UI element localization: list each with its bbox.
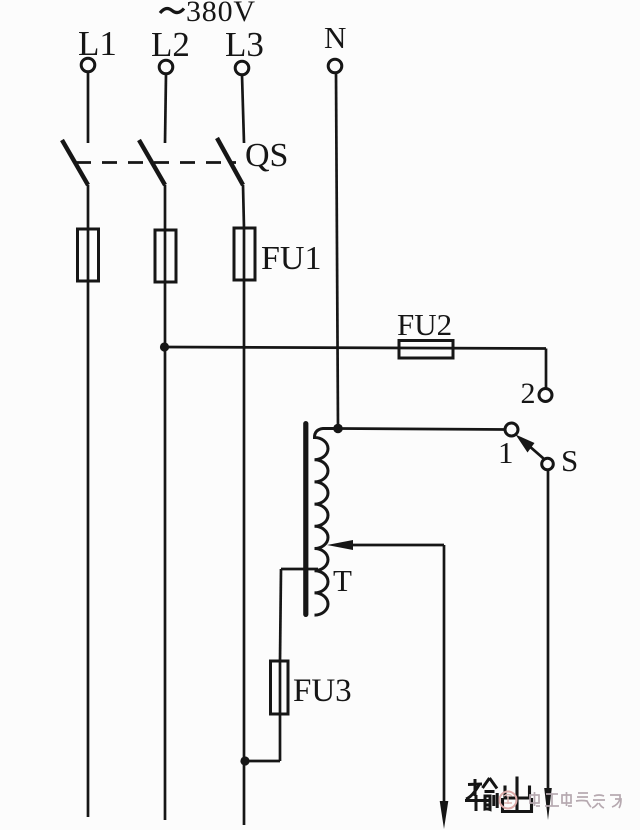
switch S blade xyxy=(520,438,544,459)
watermark logo inner xyxy=(504,795,512,805)
wire S down xyxy=(547,470,550,792)
wire in fuse1 xyxy=(87,229,90,281)
terminal L3 xyxy=(235,61,249,75)
fuse FU1 pole2 xyxy=(155,230,176,282)
wire L3 middle xyxy=(243,185,244,228)
wiper arrow line xyxy=(350,544,444,547)
wire L2 upper xyxy=(165,74,166,143)
label L3 xyxy=(225,25,264,64)
contact 2 circle xyxy=(539,389,552,402)
svg-text:380V: 380V xyxy=(186,0,256,28)
wiper arrowhead xyxy=(327,540,353,550)
label 2 xyxy=(521,377,536,410)
label ~380V xyxy=(186,0,256,28)
tilde of ~380V xyxy=(160,9,184,14)
QS linkage dashed line xyxy=(76,161,236,164)
fuse FU3 xyxy=(271,661,289,714)
svg-text:N: N xyxy=(324,20,346,55)
label FU1 xyxy=(261,240,321,277)
wire in fuse2 xyxy=(164,230,167,282)
svg-text:FU1: FU1 xyxy=(261,240,321,277)
svg-text:FU2: FU2 xyxy=(397,307,452,342)
svg-text:1: 1 xyxy=(498,435,514,470)
wire L2 middle xyxy=(164,185,167,230)
transformer T core xyxy=(303,421,308,617)
switch QS pole 2 blade xyxy=(139,140,165,185)
label FU2 xyxy=(397,307,452,342)
label 1 xyxy=(498,435,514,470)
wire L1 middle xyxy=(87,185,90,229)
wire in FU3 xyxy=(279,661,282,714)
svg-text:2: 2 xyxy=(521,377,536,410)
transformer T winding xyxy=(315,429,339,616)
wire transformer top to contact 1 xyxy=(338,429,506,430)
label FU3 xyxy=(293,673,352,709)
wire L1 upper xyxy=(87,72,90,143)
label N xyxy=(324,20,346,55)
wire to FU2 xyxy=(165,347,547,349)
wire L1 lower xyxy=(87,281,90,817)
wire FU3 to L3 xyxy=(245,760,280,763)
switch S blade arrowhead xyxy=(516,435,535,453)
junction dot transformer top xyxy=(333,424,343,434)
switch QS pole 3 blade xyxy=(217,138,243,185)
svg-text:L2: L2 xyxy=(151,25,190,64)
contact 1 circle xyxy=(505,423,518,436)
wire N vertical xyxy=(336,73,338,428)
wire wiper down xyxy=(443,545,446,803)
wire L3 upper xyxy=(242,75,244,143)
wire FU3 down xyxy=(279,714,282,761)
fuse FU1 pole3 xyxy=(234,228,255,280)
svg-text:S: S xyxy=(561,443,578,478)
wire in fuse3 xyxy=(243,228,246,280)
fuse FU1 pole1 xyxy=(78,229,99,281)
fuse FU2 xyxy=(399,341,453,359)
label L2 xyxy=(151,25,190,64)
label QS xyxy=(245,137,288,174)
svg-text:QS: QS xyxy=(245,137,288,174)
transformer tap line xyxy=(281,568,318,571)
junction dot on L3 xyxy=(240,756,249,765)
label output 出 (drawn) xyxy=(503,777,532,813)
watermark logo circle xyxy=(500,792,517,809)
svg-text:FU3: FU3 xyxy=(293,673,352,709)
watermark text 电工电气学习 (drawn) xyxy=(530,792,621,808)
junction dot on L2 xyxy=(160,342,169,351)
wire L3 lower xyxy=(243,280,246,825)
label T xyxy=(333,563,352,598)
svg-text:L1: L1 xyxy=(78,24,117,63)
label output 输 (drawn) xyxy=(465,778,497,811)
wire FU2 down to contact 2 xyxy=(545,349,548,389)
svg-text:T: T xyxy=(333,563,352,598)
switch S pivot circle xyxy=(542,458,554,470)
terminal N xyxy=(328,59,342,73)
wire tap down to FU3 xyxy=(280,569,281,661)
output arrowhead right xyxy=(544,788,552,820)
label L1 xyxy=(78,24,117,63)
terminal L2 xyxy=(159,60,173,74)
terminal L1 xyxy=(81,58,95,72)
output arrowhead left xyxy=(440,801,449,829)
svg-text:L3: L3 xyxy=(225,25,264,64)
label S xyxy=(561,443,578,478)
wire L2 lower xyxy=(164,282,167,820)
switch QS pole 1 blade xyxy=(62,140,88,185)
